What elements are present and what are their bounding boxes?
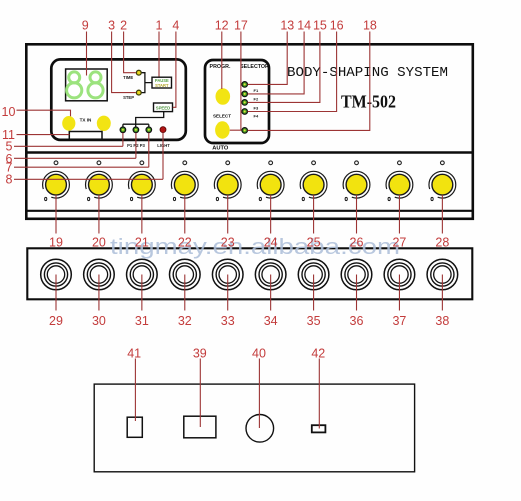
svg-text:27: 27 xyxy=(392,236,406,250)
svg-text:41: 41 xyxy=(127,346,141,360)
svg-text:15: 15 xyxy=(313,19,327,33)
svg-text:40: 40 xyxy=(252,346,266,360)
svg-text:STEP: STEP xyxy=(123,95,134,100)
svg-text:42: 42 xyxy=(311,346,325,360)
svg-text:F4: F4 xyxy=(254,114,259,119)
svg-text:PROGR.: PROGR. xyxy=(210,64,231,70)
svg-text:AUTO: AUTO xyxy=(212,145,229,151)
svg-text:10: 10 xyxy=(2,105,16,119)
svg-text:3: 3 xyxy=(108,19,115,33)
svg-text:8: 8 xyxy=(6,173,13,187)
svg-text:36: 36 xyxy=(350,314,364,328)
svg-text:SPEED: SPEED xyxy=(156,105,171,110)
svg-text:35: 35 xyxy=(307,314,321,328)
svg-text:19: 19 xyxy=(49,236,63,250)
svg-text:START: START xyxy=(155,83,169,88)
svg-text:30: 30 xyxy=(92,314,106,328)
svg-text:4: 4 xyxy=(172,19,179,33)
svg-text:17: 17 xyxy=(234,19,248,33)
svg-text:SELECT: SELECT xyxy=(213,114,231,119)
svg-text:25: 25 xyxy=(307,236,321,250)
svg-text:TM-502: TM-502 xyxy=(341,92,396,112)
svg-text:29: 29 xyxy=(49,314,63,328)
svg-text:TX IN: TX IN xyxy=(80,117,92,122)
svg-text:38: 38 xyxy=(435,314,449,328)
svg-text:34: 34 xyxy=(264,314,278,328)
svg-text:13: 13 xyxy=(280,19,294,33)
svg-text:F2: F2 xyxy=(254,97,259,102)
svg-text:BODY-SHAPING SYSTEM: BODY-SHAPING SYSTEM xyxy=(287,65,448,81)
svg-text:39: 39 xyxy=(193,346,207,360)
svg-text:20: 20 xyxy=(92,236,106,250)
svg-text:23: 23 xyxy=(221,236,235,250)
svg-text:24: 24 xyxy=(264,236,278,250)
svg-text:16: 16 xyxy=(330,19,344,33)
svg-text:LIGHT: LIGHT xyxy=(157,143,170,148)
svg-text:F3: F3 xyxy=(254,105,259,110)
svg-text:F1: F1 xyxy=(254,88,259,93)
svg-text:32: 32 xyxy=(178,314,192,328)
svg-text:21: 21 xyxy=(135,236,149,250)
svg-text:22: 22 xyxy=(178,236,192,250)
svg-text:TIME: TIME xyxy=(123,75,133,80)
svg-text:12: 12 xyxy=(215,19,229,33)
svg-text:1: 1 xyxy=(156,19,163,33)
svg-text:33: 33 xyxy=(221,314,235,328)
svg-text:9: 9 xyxy=(82,19,89,33)
svg-text:SELECTOR: SELECTOR xyxy=(240,64,269,70)
svg-text:28: 28 xyxy=(435,236,449,250)
svg-text:37: 37 xyxy=(392,314,406,328)
svg-text:2: 2 xyxy=(120,19,127,33)
svg-text:14: 14 xyxy=(297,19,311,33)
svg-text:26: 26 xyxy=(350,236,364,250)
svg-text:18: 18 xyxy=(363,19,377,33)
svg-text:31: 31 xyxy=(135,314,149,328)
